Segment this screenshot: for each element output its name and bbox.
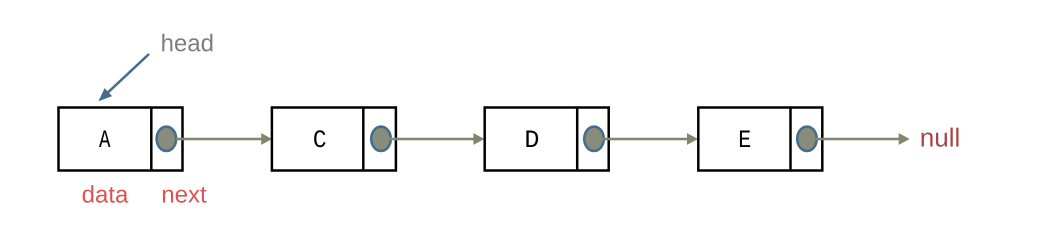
node A data label 'A': [99, 131, 110, 147]
wire arrow E to null: [816, 133, 910, 145]
node D box: [485, 108, 609, 171]
node D pointer dot: [584, 127, 604, 151]
node C divider: [362, 107, 365, 171]
wire arrow D to E: [602, 133, 698, 145]
node C pointer dot: [371, 127, 391, 151]
node D divider: [576, 107, 579, 171]
node E data label 'E': [740, 131, 750, 147]
head label: [162, 34, 212, 52]
node C data label 'C': [314, 130, 325, 147]
null label: [922, 128, 959, 147]
node E divider: [789, 107, 792, 171]
head arrow (pointer to first node): [99, 54, 150, 101]
data field label: [83, 185, 129, 203]
node D data label 'D': [526, 131, 538, 147]
wire arrow A to C: [176, 133, 272, 145]
node C box: [272, 108, 396, 171]
node A box: [59, 108, 183, 171]
wire arrow C to D: [389, 133, 484, 145]
node A pointer dot: [157, 127, 177, 151]
node A divider: [150, 107, 153, 171]
node E pointer dot: [797, 127, 817, 151]
node E box: [698, 108, 822, 171]
next field label: [163, 187, 207, 203]
